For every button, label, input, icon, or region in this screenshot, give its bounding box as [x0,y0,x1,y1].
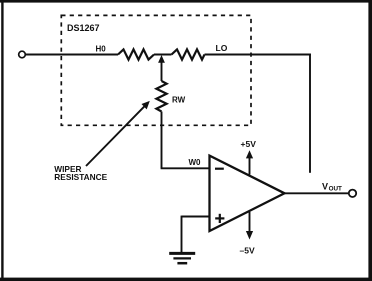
svg-text:LO: LO [216,43,228,53]
op-amp minus sign [215,168,224,170]
svg-text:RESISTANCE: RESISTANCE [54,172,107,182]
svg-text:–5V: –5V [240,245,255,255]
wire: between resistors (wiper node) [154,54,172,56]
svg-text:RW: RW [172,96,186,105]
wire: W0 horizontal into inverting input [161,167,209,169]
svg-text:V: V [322,182,328,192]
svg-text:H0: H0 [96,45,107,54]
wire: non-inverting input from ground [182,216,210,218]
wire: RW down to W0 corner [161,112,163,169]
op-amp U1 [210,156,285,231]
wire: input to resistor R1 [25,54,118,56]
wiper resistance pointer arrow [86,106,145,166]
resistor RW (wiper) [156,81,166,112]
wire: op-amp output [285,192,349,194]
svg-text:DS1267: DS1267 [67,23,100,33]
svg-text:OUT: OUT [329,186,342,193]
VOUT terminal circle [349,190,356,197]
+5V supply arrow [249,157,251,175]
resistor R1 (H0 side) [118,49,154,59]
wire: LO to right corner [205,54,311,56]
svg-text:W0: W0 [189,158,202,167]
wiper arrow at node [158,55,165,63]
-5V supply arrow [249,212,251,233]
input terminal circle [19,51,26,58]
svg-text:+5V: +5V [241,139,257,149]
DS1267 dashed box [61,15,251,125]
resistor R2 (LO side) [172,49,205,59]
ground [169,253,195,263]
op-amp plus sign [215,217,224,219]
wire: feedback vertical (ends short of output wire) [309,54,311,173]
